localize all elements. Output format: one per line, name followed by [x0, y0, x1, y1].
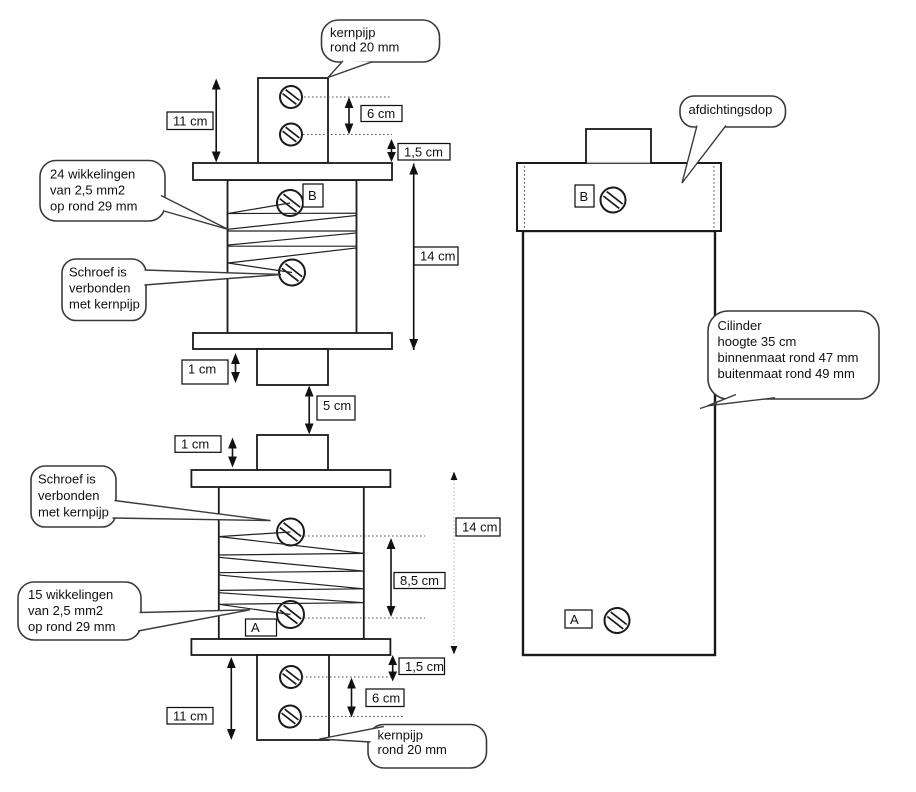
- svg-text:1 cm: 1 cm: [181, 437, 209, 452]
- svg-text:5 cm: 5 cm: [323, 398, 351, 413]
- svg-text:op rond 29 mm: op rond 29 mm: [28, 619, 115, 634]
- svg-text:6 cm: 6 cm: [372, 690, 400, 705]
- svg-text:6 cm: 6 cm: [367, 106, 395, 121]
- svg-text:1,5 cm: 1,5 cm: [404, 144, 443, 159]
- svg-text:8,5 cm: 8,5 cm: [400, 573, 439, 588]
- svg-text:11 cm: 11 cm: [173, 708, 207, 723]
- svg-text:met kernpijp: met kernpijp: [69, 297, 140, 312]
- svg-text:afdichtingsdop: afdichtingsdop: [689, 102, 773, 117]
- svg-text:van 2,5 mm2: van 2,5 mm2: [28, 603, 103, 618]
- svg-text:van 2,5 mm2: van 2,5 mm2: [50, 183, 125, 198]
- svg-text:A: A: [570, 612, 579, 627]
- svg-text:1,5 cm: 1,5 cm: [405, 659, 444, 674]
- svg-text:14 cm: 14 cm: [420, 249, 455, 264]
- svg-text:24 wikkelingen: 24 wikkelingen: [50, 167, 135, 182]
- svg-text:A: A: [251, 620, 260, 635]
- svg-text:Schroef is: Schroef is: [38, 472, 96, 487]
- svg-text:15 wikkelingen: 15 wikkelingen: [28, 587, 113, 602]
- svg-text:14 cm: 14 cm: [462, 520, 497, 535]
- svg-text:B: B: [308, 188, 317, 203]
- svg-text:hoogte 35 cm: hoogte 35 cm: [718, 334, 797, 349]
- svg-text:verbonden: verbonden: [69, 281, 130, 296]
- svg-text:Schroef is: Schroef is: [69, 265, 127, 280]
- svg-text:B: B: [580, 189, 589, 204]
- svg-text:buitenmaat rond 49 mm: buitenmaat rond 49 mm: [718, 366, 855, 381]
- svg-text:kernpijp: kernpijp: [330, 25, 376, 40]
- svg-text:rond 20 mm: rond 20 mm: [330, 40, 399, 55]
- svg-text:kernpijp: kernpijp: [378, 728, 424, 743]
- svg-text:op rond 29 mm: op rond 29 mm: [50, 199, 137, 214]
- svg-text:11 cm: 11 cm: [173, 113, 207, 128]
- svg-text:rond 20 mm: rond 20 mm: [378, 742, 447, 757]
- svg-text:Cilinder: Cilinder: [718, 318, 763, 333]
- svg-text:1 cm: 1 cm: [188, 362, 216, 377]
- svg-text:binnenmaat rond 47 mm: binnenmaat rond 47 mm: [718, 350, 859, 365]
- svg-text:verbonden: verbonden: [38, 488, 99, 503]
- svg-text:met kernpijp: met kernpijp: [38, 505, 109, 520]
